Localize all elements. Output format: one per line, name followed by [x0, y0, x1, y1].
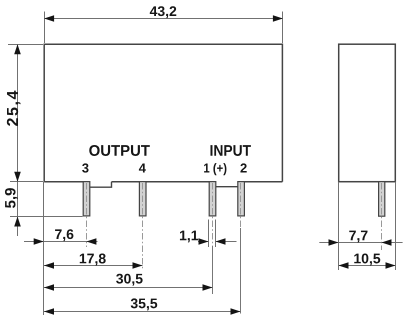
- centerline pin 3: [86, 183, 88, 247]
- dimension 5,9: [10, 182, 83, 236]
- housing boss between pin 1 and pin 2: [212, 186, 241, 188]
- dimension 1,1: [198, 220, 237, 248]
- dimension 43,2: [44, 12, 283, 44]
- pin 1: [209, 182, 216, 216]
- dimension 10,5: [339, 182, 396, 270]
- dimension 7,7: [319, 182, 402, 270]
- dimension 30,5: [44, 287, 213, 289]
- housing boss right of pin 3: [86, 182, 112, 188]
- centerline pin 2: [240, 183, 242, 314]
- side view pin: [379, 182, 385, 217]
- side view housing: [339, 44, 396, 182]
- dimension 17,8: [44, 265, 143, 267]
- dimension 7,6: [24, 182, 98, 315]
- dimension 25,4: [8, 44, 43, 182]
- centerline pin 4: [142, 183, 144, 271]
- label INPUT: [210, 145, 250, 156]
- pin label 2: [240, 163, 246, 172]
- side view centerline: [381, 183, 383, 250]
- pin 2: [238, 182, 245, 216]
- centerline pin 1: [212, 183, 214, 294]
- pin 3: [83, 182, 90, 216]
- label OUTPUT: [89, 145, 150, 156]
- pin 4: [139, 182, 146, 216]
- pin label 4: [139, 164, 146, 173]
- dimension 35,5: [44, 311, 241, 313]
- pin label 3: [82, 163, 88, 172]
- front view housing: [44, 44, 282, 182]
- pin label 1 (+): [204, 163, 226, 175]
